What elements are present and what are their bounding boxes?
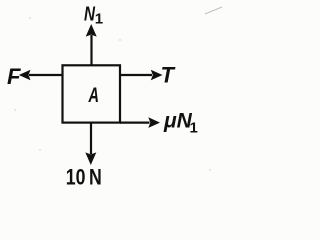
svg-text:1: 1 — [190, 120, 198, 137]
svg-text:10 N: 10 N — [66, 165, 102, 190]
svg-text:T: T — [161, 63, 176, 88]
svg-text:A: A — [88, 84, 99, 107]
svg-text:F: F — [7, 64, 21, 89]
svg-text:μN: μN — [163, 110, 193, 133]
svg-text:N: N — [84, 4, 95, 26]
svg-text:1: 1 — [95, 11, 103, 28]
